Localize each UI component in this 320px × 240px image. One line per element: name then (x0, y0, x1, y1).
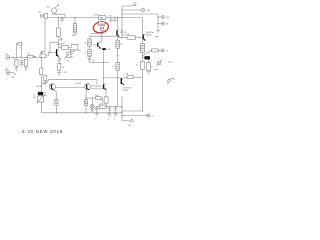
resistor R16 (43, 76, 47, 86)
resistor R20 (emitter) (81, 90, 87, 113)
capacitor C18 (113, 107, 117, 121)
resistor R11 (24, 59, 28, 70)
chassis ground (122, 119, 134, 127)
svg-text:B1: B1 (39, 12, 41, 14)
svg-text:x: x (58, 8, 59, 10)
svg-text:50k: 50k (59, 40, 62, 42)
svg-text:+: + (57, 20, 58, 22)
svg-text:BD250: BD250 (146, 34, 151, 36)
resistor R2 (72, 17, 77, 37)
svg-text:Z.30 NEW 2019: Z.30 NEW 2019 (22, 129, 63, 134)
svg-text:IN2: IN2 (5, 69, 8, 71)
potentiometer VR2 (64, 52, 71, 62)
capacitor C9 (40, 52, 56, 58)
capacitor C1 (57, 18, 64, 23)
capacitor C4 (113, 16, 116, 23)
svg-text:OC26: OC26 (121, 34, 126, 36)
wire power ground (42, 18, 45, 57)
svg-text:AC128: AC128 (96, 85, 101, 88)
svg-text:10u: 10u (62, 43, 65, 45)
capacitor C8 (27, 54, 36, 58)
trimpot VR3 (33, 95, 45, 104)
transistor Q9 (output) (121, 77, 131, 92)
transistor Q3 (93, 36, 102, 49)
wire (40, 102, 42, 113)
svg-text:1k: 1k (62, 67, 64, 69)
transistor Q7 (143, 31, 155, 41)
svg-text:bias: bias (155, 69, 158, 71)
resistor R6 (152, 49, 159, 52)
svg-text:5W: 5W (33, 97, 36, 99)
capacitor C12 (88, 57, 95, 63)
node (142, 55, 143, 56)
terminal T1 (141, 8, 151, 12)
transistor Q5 (driver) (37, 83, 56, 90)
svg-text:470: 470 (127, 34, 130, 36)
wire rail A (52, 14, 65, 17)
resistor R12 (57, 63, 64, 75)
resistor R15 (40, 68, 43, 75)
svg-text:rec: rec (166, 51, 169, 53)
capacitor C3 (109, 16, 113, 23)
wire node A (91, 32, 102, 34)
resistor R18 (99, 103, 106, 108)
transistor Q1 (switch) (47, 4, 60, 14)
terminal T5 speaker (147, 114, 155, 118)
svg-text:gnd: gnd (155, 36, 158, 38)
capacitor C6 (20, 59, 24, 67)
capacitor C5 (electrolytic) (142, 56, 151, 61)
terminal T3 (158, 22, 169, 26)
arrow to supply (131, 2, 138, 6)
resistor R3 label block (94, 13, 106, 20)
capacitor C17 (107, 107, 111, 121)
resistor R9 (112, 63, 119, 71)
capacitor C16 (94, 107, 99, 121)
wire (91, 88, 103, 90)
input jack J3 (5, 69, 16, 79)
capacitor C10 output coupling (58, 43, 81, 58)
svg-text:.1: .1 (107, 119, 109, 121)
wire input (10, 56, 40, 58)
svg-text:.1: .1 (94, 119, 96, 121)
wire bias path (50, 42, 58, 52)
wire to output terminal (142, 50, 161, 56)
transistor Q6 (driver) (85, 83, 97, 90)
wire bottom rail (41, 112, 122, 114)
thermistor R17 (86, 95, 103, 108)
terminal T4 (161, 49, 168, 53)
svg-text:5W: 5W (44, 95, 47, 97)
transistor Q2 (56, 44, 62, 57)
capacitor C14 (electrolytic) (38, 92, 43, 95)
svg-text:10u: 10u (40, 52, 43, 54)
svg-text:.1: .1 (113, 16, 115, 18)
svg-text:BD250: BD250 (123, 90, 129, 92)
wire collector feed (104, 77, 121, 79)
lamp LP1 (90, 98, 98, 113)
svg-text:73: 73 (136, 65, 138, 67)
svg-text:R22: R22 (64, 72, 67, 74)
wire feedback (40, 58, 42, 93)
svg-text:x: x (104, 29, 105, 31)
wire node C (90, 50, 110, 84)
resistor R13 (84, 36, 91, 46)
wire main +V rail (48, 17, 143, 19)
svg-text:1k: 1k (84, 52, 86, 54)
wire speaker loop (122, 96, 146, 121)
fuse icon (167, 79, 175, 85)
jack J1 power input (39, 12, 44, 18)
potentiometer VR1 (57, 18, 63, 49)
capacitor C15 (100, 90, 108, 107)
resistor R14 (84, 46, 91, 56)
wire speaker row (97, 106, 122, 108)
wire (117, 48, 119, 62)
wire (121, 106, 123, 108)
wire node B (90, 35, 117, 37)
svg-text:AC187: AC187 (37, 85, 43, 88)
resistor R8 (116, 35, 122, 49)
resistor R4 (118, 34, 143, 39)
resistor R1 (45, 14, 48, 19)
trimmer TP1 (155, 60, 163, 71)
svg-text:AC187: AC187 (94, 13, 99, 16)
svg-text:2k: 2k (84, 42, 86, 44)
resistor R5 (hatched) (140, 44, 144, 53)
wire (117, 70, 119, 107)
fuse F1 (125, 73, 143, 79)
svg-text:1k: 1k (112, 66, 114, 68)
capacitor C2 (inside red circle) (99, 20, 105, 26)
resistor R7b (147, 60, 153, 75)
capacitor C13 (electrolytic) (102, 48, 110, 51)
terminal T2 (158, 14, 171, 31)
svg-text:10: 10 (99, 103, 101, 105)
svg-text:TR5: TR5 (100, 18, 103, 20)
resistor R10 (14, 59, 18, 70)
svg-text:SW: SW (47, 7, 50, 9)
transistor Q4 (116, 18, 126, 37)
wire (44, 15, 45, 17)
svg-text:1: 1 (81, 104, 82, 106)
svg-text:BC549: BC549 (75, 83, 81, 85)
resistor R7 (136, 61, 145, 69)
transistor Q8 (output) (96, 84, 107, 90)
svg-text:+: + (151, 59, 152, 61)
svg-text:.5: .5 (100, 99, 101, 101)
red circle annotation (92, 21, 109, 34)
capacitor C11 emitter (58, 57, 62, 64)
node dots (122, 10, 123, 11)
wire (55, 86, 85, 88)
input jack J2 (5, 54, 9, 60)
svg-text:10k: 10k (72, 35, 75, 37)
wire right rail (141, 18, 143, 112)
diode D1 (inside red circle) (100, 26, 105, 37)
svg-text:.1: .1 (113, 119, 115, 121)
resistor R19 (emitter) (52, 89, 58, 113)
svg-text:47u: 47u (109, 16, 112, 18)
svg-text:+50u: +50u (106, 49, 110, 51)
ground (155, 31, 160, 39)
capacitor C7 (bypass loop) (17, 43, 22, 58)
svg-text:1k: 1k (120, 44, 122, 46)
svg-text:1n: 1n (19, 48, 21, 50)
wire driver bus (41, 80, 97, 85)
wire power feed lines (122, 6, 158, 38)
svg-text:8: 8 (151, 67, 152, 69)
svg-text:1: 1 (52, 104, 53, 106)
svg-text:25u: 25u (92, 60, 95, 62)
